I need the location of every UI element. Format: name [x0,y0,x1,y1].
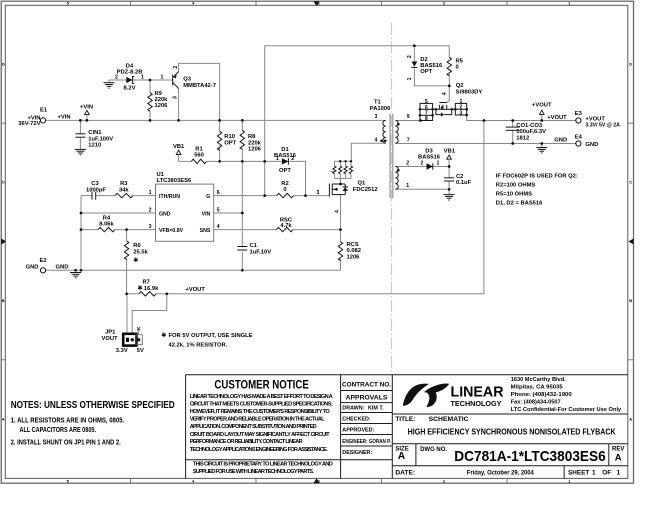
svg-text:8.06k: 8.06k [99,222,114,228]
svg-text:R10: R10 [224,134,235,140]
resistor R10 [217,131,221,150]
svg-text:VOUT: VOUT [102,336,119,342]
resistor R2 [277,193,294,197]
diode D3 [427,163,433,169]
svg-text:TECHNOLOGY: TECHNOLOGY [451,399,502,408]
svg-text:1: 1 [592,470,596,477]
terminal E1 [40,118,45,123]
svg-text:DWG NO.: DWG NO. [420,447,447,453]
svg-text:ENGINEER: GORAN P.: ENGINEER: GORAN P. [342,439,391,445]
wire Q3 emitter [178,89,180,121]
svg-text:Q3: Q3 [183,77,192,83]
mosfet Q1 [329,184,345,197]
svg-text:FDC2512: FDC2512 [353,187,378,193]
wire T1 pin4 to snubber [351,143,385,161]
svg-text:CIRCUIT THAT MEETS CUSTOMER-SU: CIRCUIT THAT MEETS CUSTOMER-SUPPLIED SPE… [190,401,333,407]
note for 5V output [162,333,166,338]
svg-text:1: 1 [617,470,621,477]
resistor R5 [447,57,451,76]
diode D1 [282,158,289,164]
body diode of Q1 [342,187,348,191]
svg-text:R1: R1 [195,146,203,152]
svg-text:1: 1 [149,190,152,196]
title block outline [186,375,628,479]
wire +VIN arrow stem [86,114,88,120]
wire R6 branch [126,230,128,241]
transformer T1 secondary winding upper [395,120,398,143]
svg-text:100uF,6.3V: 100uF,6.3V [516,129,546,135]
wire Q1 source to SNS node [340,195,342,230]
svg-text:1: 1 [161,74,164,80]
resistor R9 [148,93,152,112]
svg-text:TITLE:: TITLE: [395,416,415,423]
svg-text:6: 6 [217,190,220,196]
resistor R8 [240,130,244,149]
svg-text:1: 1 [437,161,440,167]
wire JP1 pin2 jog [132,294,167,335]
svg-text:D2: D2 [420,57,427,63]
svg-text:8: 8 [425,116,428,122]
svg-text:3.3V: 3.3V [116,348,128,354]
net arrow VB1 [176,150,181,154]
net arrow +VIN [85,110,90,114]
svg-text:HOWEVER, IT REMAINS THE CUSTOM: HOWEVER, IT REMAINS THE CUSTOMER'S RESPO… [190,409,331,415]
svg-text:VB1: VB1 [444,149,456,155]
svg-text:LTC Confidential-For Customer: LTC Confidential-For Customer Use Only [511,407,622,413]
svg-text:3: 3 [460,110,463,116]
wire R8 / VIN supply vertical [241,120,243,130]
svg-text:GND: GND [159,211,171,217]
wire U1 G line [214,195,277,197]
svg-text:1uF,100V: 1uF,100V [88,136,113,142]
capacitor CO1-CO3 [506,127,520,130]
svg-text:RCS: RCS [347,242,359,248]
svg-text:C: C [629,180,632,185]
net arrow +VOUT [540,110,545,114]
svg-text:1206: 1206 [248,147,262,153]
resistor R4 [98,227,115,231]
svg-text:Q1: Q1 [358,181,367,187]
diode D2 [412,62,418,67]
wire D2-R5 bottom tie [414,85,449,87]
svg-text:4: 4 [375,137,378,143]
wire snubber rails [334,160,351,162]
svg-text:+VIN: +VIN [80,104,93,110]
svg-text:1000pF: 1000pF [86,187,106,193]
svg-text:R4: R4 [103,215,111,221]
svg-text:OPT: OPT [420,69,432,75]
svg-text:BAS516: BAS516 [420,63,443,69]
svg-text:2: 2 [407,55,413,58]
svg-text:VB1: VB1 [173,144,185,150]
svg-text:+VOUT: +VOUT [585,116,605,122]
svg-text:KIM T.: KIM T. [368,406,384,412]
svg-text:9: 9 [407,114,410,120]
wire T1 pin1 line [395,188,449,190]
svg-text:GND: GND [56,265,69,271]
wire U1 pin1 line with C3 R3 [81,195,92,197]
wire +VOUT feedback line [167,121,484,294]
svg-text:Q2: Q2 [456,83,464,89]
wire output gnd stub [541,144,543,148]
svg-text:R8: R8 [248,134,256,140]
net arrow VB1 secondary [447,155,452,159]
svg-text:16.9k: 16.9k [144,286,159,292]
wire D3 cathode to VB1 node [433,166,449,168]
wire R9 leads [149,80,151,93]
svg-text:OPT: OPT [224,140,236,146]
wire U1 VFB pin3 with R4 [81,229,98,231]
wire U1 GND pin2 [81,212,156,214]
svg-text:4: 4 [217,224,220,230]
svg-text:+VOUT: +VOUT [547,115,567,121]
capacitor C1 [237,247,247,251]
svg-text:R5: R5 [456,58,464,64]
svg-text:A: A [2,417,5,422]
mosfet Q2 channel and gate [436,103,452,110]
svg-text:FOR 5V OUTPUT, USE SINGLE: FOR 5V OUTPUT, USE SINGLE [169,333,253,339]
wire R10 leads [219,120,221,131]
wire left vertical to gnd [80,196,82,271]
ground at D4 anode [104,83,115,88]
svg-text:E1: E1 [40,108,48,114]
phasing dots T1 [380,140,383,143]
svg-text:JP1: JP1 [105,329,116,335]
svg-text:4.7k: 4.7k [280,223,292,229]
wire T1 pin9 to Q2 [395,120,420,122]
svg-text:0: 0 [283,187,286,193]
wire Q3 collector loop [179,63,220,120]
svg-text:D3: D3 [425,148,433,154]
svg-text:A: A [398,451,405,462]
svg-text:PERFORMANCE OR RELIABILITY. C: PERFORMANCE OR RELIABILITY. CONTACT LINE… [190,439,303,445]
resistor R1 [191,159,206,163]
svg-text:CO1-CO3: CO1-CO3 [516,123,543,129]
jumper JP1 [123,334,136,346]
svg-text:2: 2 [173,66,179,69]
svg-text:0.1uF: 0.1uF [456,180,472,186]
svg-text:220k: 220k [248,140,262,146]
svg-text:3: 3 [316,190,319,196]
wire U1 VIN pin5 [214,212,243,214]
svg-text:SHEET: SHEET [568,470,589,477]
svg-text:A: A [629,417,632,422]
capacitor C3 [92,192,96,200]
svg-text:1210: 1210 [88,143,101,149]
svg-text:1uF,10V: 1uF,10V [250,249,272,255]
wire RCS leads [340,230,342,242]
terminal E3 [576,118,581,123]
svg-text:VIN: VIN [202,211,211,217]
svg-text:1: 1 [141,74,144,80]
svg-text:CONTRACT NO.: CONTRACT NO. [342,382,391,389]
capacitor CIN1 [75,134,85,137]
svg-text:PA1006: PA1006 [370,106,391,112]
svg-text:C3: C3 [91,181,99,187]
svg-text:+VOUT: +VOUT [532,103,552,109]
svg-text:0: 0 [456,65,459,71]
ground below C2 [444,195,455,200]
svg-text:+VIN: +VIN [58,115,71,121]
mosfet Q2 SO-8 right block pins 1-3 [452,103,467,115]
wire CO1-CO3 leads [512,121,514,128]
svg-text:VFB=0.8V: VFB=0.8V [159,228,184,234]
svg-text:34k: 34k [119,187,129,193]
svg-text:SCHEMATIC: SCHEMATIC [429,416,469,423]
svg-text:DESIGNER:: DESIGNER: [342,450,372,456]
svg-text:Phone: (408)432-1900: Phone: (408)432-1900 [511,392,573,398]
svg-text:R2: R2 [281,181,288,187]
wire T1 pin2 to D3 [395,166,426,168]
svg-text:TECHNOLOGY APPLICATIONS ENGINE: TECHNOLOGY APPLICATIONS ENGINEERING FOR … [190,447,328,453]
svg-text:LINEAR: LINEAR [451,383,504,400]
svg-text:D1, D2 = BAS516: D1, D2 = BAS516 [496,201,543,207]
zener diode D4 [126,77,132,83]
svg-text:3.3V/ 5V @ 2A: 3.3V/ 5V @ 2A [585,123,620,129]
svg-text:1. ALL RESISTORS ARE IN OHMS,: 1. ALL RESISTORS ARE IN OHMS, 0805. [11,415,125,424]
svg-text:Fax: (408)434-0507: Fax: (408)434-0507 [511,399,562,405]
terminal E2 [40,268,45,273]
svg-text:42.2k, 1% RESISTOR.: 42.2k, 1% RESISTOR. [169,343,228,349]
svg-text:C1: C1 [250,243,258,249]
svg-text:E2: E2 [40,258,47,264]
terminal E4 [576,141,581,146]
svg-text:1: 1 [406,183,409,189]
mosfet Q2 SO-8 left block pins 5-8 [420,103,436,120]
IC U1 [156,184,214,241]
svg-text:A: A [615,451,622,462]
wire Q2 gate lead [447,86,449,103]
svg-text:5V: 5V [137,348,144,354]
svg-text:CHECKED:: CHECKED: [342,417,371,423]
svg-text:560: 560 [194,153,204,159]
svg-text:SNS: SNS [200,228,211,234]
svg-text:DC781A-1*LTC3803ES6: DC781A-1*LTC3803ES6 [454,449,605,465]
address [511,377,622,413]
wire R7 line [127,293,139,295]
svg-text:SUPPLIED FOR USE WITH LINEAR T: SUPPLIED FOR USE WITH LINEAR TECHNOLOGY … [193,469,314,475]
svg-text:D: D [2,62,5,67]
svg-text:C: C [2,180,5,185]
svg-text:PDZ-8.2B: PDZ-8.2B [117,69,143,75]
svg-text:2: 2 [406,160,409,166]
svg-text:APPLICATION. COMPONENT SUBSTI: APPLICATION. COMPONENT SUBSTITUTION AND … [190,424,317,430]
svg-text:GND: GND [26,265,39,271]
svg-text:B: B [629,298,632,303]
svg-text:LINEAR TECHNOLOGY HAS MADE A B: LINEAR TECHNOLOGY HAS MADE A BEST EFFORT… [190,394,333,400]
Linear Technology logo [403,383,504,408]
svg-text:R3: R3 [120,181,128,187]
svg-text:R5=10 OHMS: R5=10 OHMS [496,192,532,198]
resistor R6 [124,241,128,260]
svg-text:5: 5 [217,207,220,213]
svg-text:VERIFY PROPER AND RELIABLE OPE: VERIFY PROPER AND RELIABLE OPERATION IN … [190,417,326,423]
svg-text:D1: D1 [281,147,289,153]
svg-text:NOTES: UNLESS OTHERWISE SPECI: NOTES: UNLESS OTHERWISE SPECIFIED [11,400,175,411]
wire R5 bottom lead [448,74,450,86]
svg-text:R7: R7 [143,279,150,285]
wire GND rail [46,269,341,271]
ground at output [536,148,547,153]
transistor Q3 [173,72,179,89]
wire D4 to Q3 base [109,79,126,81]
svg-text:APPROVALS: APPROVALS [346,395,388,402]
svg-text:DRAWN:: DRAWN: [342,406,364,412]
svg-text:1206: 1206 [155,103,169,109]
svg-text:T1: T1 [374,100,382,106]
svg-text:HIGH EFFICIENCY SYNCHRONOUS NO: HIGH EFFICIENCY SYNCHRONOUS NONISOLATED … [408,427,616,437]
wire GND output rail pin7 [395,143,575,145]
svg-text:CIRUIT BOARD LAYOUT MAY SIGNIF: CIRUIT BOARD LAYOUT MAY SIGNIFICANTLY AF… [190,432,331,438]
ground at E2 [70,273,81,278]
svg-text:E4: E4 [575,134,583,140]
transformer T1 secondary winding lower [395,167,398,190]
svg-text:THIS CIRCUIT IS PROPRIETARY TO: THIS CIRCUIT IS PROPRIETARY TO LINEAR TE… [193,461,333,467]
wire D4 cathode to R9 node to Q3 [133,79,173,81]
svg-text:4: 4 [334,210,340,213]
wire +VOUT arrow stem [541,114,543,120]
svg-text:R2=100 OHMS: R2=100 OHMS [496,183,536,189]
wire VB1-R1 gate supply line [179,160,192,162]
isolation dash-dot boundary line [391,23,393,372]
wire snubber to Q1 drain [340,178,342,184]
svg-text:ITH/RUN: ITH/RUN [159,194,180,200]
svg-text:D: D [629,62,632,67]
svg-text:2: 2 [291,156,294,162]
wire D4 gnd stub [108,80,110,83]
svg-text:R6: R6 [133,243,141,249]
svg-text:2: 2 [115,74,118,80]
svg-text:APPROVED:: APPROVED: [342,428,374,434]
svg-text:36V-72V: 36V-72V [18,121,40,127]
svg-text:LTC3803ES6: LTC3803ES6 [157,178,192,184]
wire JP1 pin1 drop [126,294,128,335]
svg-text:1: 1 [276,156,279,162]
svg-text:IF FDC602P IS USED FOR Q2:: IF FDC602P IS USED FOR Q2: [496,174,578,180]
svg-text:E3: E3 [575,111,583,117]
svg-text:8.2V: 8.2V [124,86,136,92]
svg-text:2: 2 [421,161,424,167]
svg-text:3: 3 [173,96,179,99]
wire CIN1 leads [79,120,81,133]
ground below CIN1 [75,149,86,154]
svg-text:CIN1: CIN1 [88,130,102,136]
wire D2 leads [413,46,415,62]
svg-text:4: 4 [442,92,448,95]
svg-text:Friday, October 29, 2004: Friday, October 29, 2004 [467,470,534,477]
wire Q2 source drop to +VOUT rail [467,115,576,121]
capacitor C2 [444,178,454,181]
wire U1 SNS line with RSC [214,229,277,231]
svg-text:C2: C2 [456,174,463,180]
svg-text:MMBTA42-7: MMBTA42-7 [183,83,216,89]
svg-text:25.5k: 25.5k [133,249,148,255]
svg-text:G: G [206,194,210,200]
svg-text:1206: 1206 [347,254,361,260]
svg-text:Milpitas, CA 95035: Milpitas, CA 95035 [511,384,564,390]
svg-text:7: 7 [407,137,410,143]
svg-text:B: B [2,298,5,303]
svg-text:Si9803DY: Si9803DY [456,89,483,95]
resistor R7 [139,292,156,296]
svg-text:3: 3 [149,224,152,230]
svg-text:+VOUT: +VOUT [185,287,205,293]
svg-text:1812: 1812 [516,135,529,141]
junction dots [79,119,82,122]
svg-text:0.082: 0.082 [347,248,362,254]
resistor R3 [115,193,133,197]
wire +VIN rail [46,119,386,121]
wire D1 cathode jog down to gate [288,161,305,195]
no-connect x at JP1 pin3 [138,329,140,335]
wire VB1 node to C2 [448,167,450,178]
svg-text:3: 3 [375,114,378,120]
svg-text:OPT: OPT [279,168,291,174]
svg-text:1630 McCarthy Blvd.: 1630 McCarthy Blvd. [511,377,566,383]
transformer T1 primary winding [383,120,386,143]
svg-text:2. INSTALL SHUNT ON JP1 PIN 1: 2. INSTALL SHUNT ON JP1 PIN 1 AND 2. [11,438,121,447]
resistor RSC [276,227,293,231]
svg-text:2: 2 [149,207,152,213]
resistor RCS [338,242,342,261]
transformer T1 core [389,114,391,198]
svg-text:ALL CAPACITORS ARE 0805.: ALL CAPACITORS ARE 0805. [20,425,97,434]
svg-text:CUSTOMER NOTICE: CUSTOMER NOTICE [214,377,308,391]
snubber network mini resistors [333,166,353,174]
svg-text:GND: GND [585,142,598,148]
svg-text:GND: GND [554,138,567,144]
body diode of Q2 [436,109,441,114]
svg-text:DATE:: DATE: [395,470,415,477]
wire gate top net (to D2/R5) [265,46,450,196]
svg-text:OF: OF [602,470,611,477]
svg-text:1: 1 [407,77,413,80]
